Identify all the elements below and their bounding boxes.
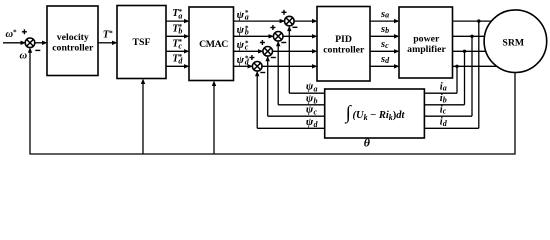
svg-text:θ: θ [364,136,371,150]
wire i_d into integrator [424,127,478,129]
wire tap from phase c down to i_b row [463,50,466,105]
wire arrowhead theta into junction S0 [28,47,32,53]
summing junction S0 [25,38,35,48]
svg-text:sc: sc [380,39,389,50]
wire phase a power amplifier to SRM [453,20,501,22]
wire Tb* TSF to CMAC [166,34,190,38]
summing junction D plus sign [249,55,254,60]
svg-text:sd: sd [380,54,390,65]
svg-text:(Uk − Rik)dt: (Uk − Rik)dt [353,110,406,122]
wire psi_d* CMAC to junction D [234,64,254,68]
svg-text:velocity: velocity [57,32,89,43]
summing junction D [252,62,262,72]
svg-text:ψ*d: ψ*d [237,54,250,66]
svg-text:CMAC: CMAC [199,39,228,50]
wire tap from phase b down to i_c row [470,35,473,117]
svg-text:T*b: T*b [172,23,182,35]
svg-text:amplifier: amplifier [407,44,446,55]
wire theta feedback from SRM along bottom [30,50,515,155]
wire s_d PID to power amplifier [370,64,400,68]
svg-text:sb: sb [380,24,389,35]
wire T* velocity controller to TSF [98,41,118,45]
wire Tc* TSF to CMAC [166,49,190,53]
wire s_b PID to power amplifier [370,34,400,38]
summing junction B plus sign [270,25,275,30]
wire junction B to PID [283,34,318,38]
summing junction D minus sign [260,72,265,74]
summing junction A plus sign [282,10,287,15]
summing junction C [263,47,273,57]
svg-text:PID: PID [335,34,352,45]
block PID controller [317,7,370,82]
wire tap from phase a down to i_d row [477,19,480,128]
wire psi_a integrator to feedback [289,92,324,94]
svg-text:controller: controller [323,45,365,56]
svg-text:id: id [440,117,448,128]
wire psi_a* CMAC to junction A [234,19,286,23]
svg-text:SRM: SRM [502,38,524,49]
svg-text:power: power [413,34,440,45]
block CMAC [189,7,234,81]
summing junction A minus sign [292,26,297,28]
svg-text:T*d: T*d [172,53,183,65]
wire psi_b feedback vertical into junction B [276,41,280,105]
wire psi_d integrator to feedback [257,127,325,129]
svg-text:T*a: T*a [172,8,182,20]
wire phase c power amplifier to SRM [453,50,501,52]
wire phase b power amplifier to SRM [453,35,501,37]
block TSF [117,6,166,79]
svg-text:ib: ib [440,93,447,104]
svg-text:sa: sa [380,9,389,20]
svg-text:ω: ω [20,51,28,62]
wire S0 to velocity controller [35,41,48,45]
wire junction A to PID [294,19,318,23]
block velocity controller [47,6,98,76]
machine SRM [484,10,547,73]
svg-text:controller: controller [52,43,94,54]
wire psi_c feedback vertical into junction C [266,56,270,116]
wire Ta* TSF to CMAC [166,19,190,23]
block power amplifier [399,7,453,78]
wire psi_c integrator to feedback [268,115,325,117]
wire Td* TSF to CMAC [166,64,190,68]
wire psi_c* CMAC to junction C [234,49,264,53]
summing junction C plus sign [260,40,265,45]
svg-text:ia: ia [440,82,447,93]
svg-text:T*c: T*c [172,38,182,50]
wire phase d power amplifier to SRM [453,65,501,67]
wire psi_a feedback vertical into junction A [287,26,291,94]
wire s_a PID to power amplifier [370,19,400,23]
svg-text:ψ*a: ψ*a [237,9,249,21]
summing junction C minus sign [271,57,276,59]
summing junction B minus sign [281,42,286,44]
wire psi_b integrator to feedback [278,104,325,106]
wire junction C to PID [272,49,317,53]
svg-text:ψ*b: ψ*b [237,24,249,36]
summing junction B [273,32,283,42]
wire i_b into integrator [424,104,464,106]
wire tap from phase d down to i_a row [455,65,458,94]
wire s_c PID to power amplifier [370,49,400,53]
summing junction S0 minus sign [35,49,40,51]
svg-text:ψ*c: ψ*c [237,39,249,51]
summing junction S0 plus sign [22,29,27,34]
wire i_a into integrator [424,92,457,94]
wire junction D to PID [262,64,318,68]
block flux integrator [325,89,425,138]
wire theta branch into CMAC [212,81,216,155]
wire psi_b* CMAC to junction B [234,34,275,38]
wire psi_d feedback vertical into junction D [255,71,259,129]
wire omega* input [3,41,26,45]
summing junction A [285,16,295,26]
wire theta branch into TSF [141,79,145,155]
wire i_c into integrator [424,115,472,117]
svg-text:TSF: TSF [133,37,151,48]
svg-text:ic: ic [440,105,447,116]
